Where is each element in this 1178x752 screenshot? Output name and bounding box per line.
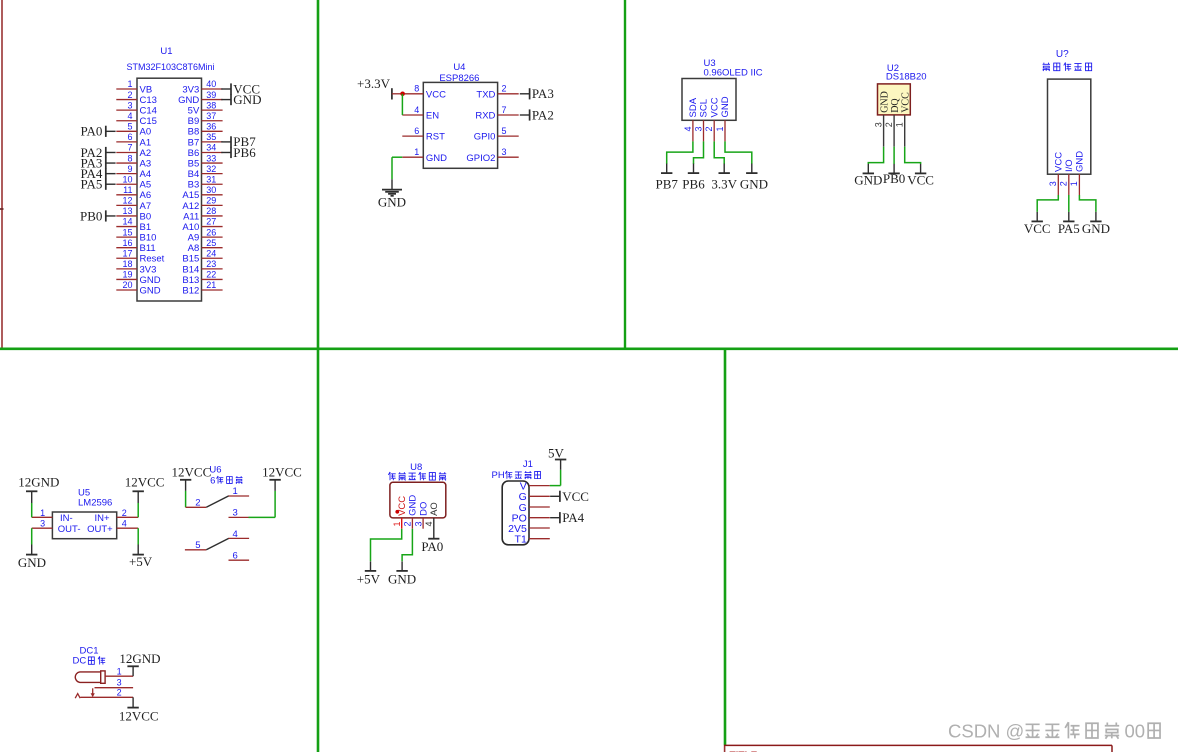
svg-text:1: 1	[1069, 181, 1079, 186]
svg-text:B14: B14	[182, 264, 199, 275]
svg-text:U?: U?	[1056, 49, 1069, 60]
svg-text:00: 00	[1125, 720, 1146, 741]
svg-text:2: 2	[704, 126, 714, 131]
svg-text:GND: GND	[233, 92, 261, 107]
svg-text:VCC: VCC	[562, 489, 589, 504]
svg-text:B13: B13	[182, 275, 199, 286]
svg-text:23: 23	[206, 259, 216, 269]
svg-text:36: 36	[206, 122, 216, 132]
svg-text:A0: A0	[140, 127, 152, 138]
svg-text:VCC: VCC	[901, 92, 912, 113]
svg-text:GND: GND	[740, 176, 768, 191]
svg-text:VCC: VCC	[1054, 152, 1065, 172]
svg-text:2: 2	[122, 508, 127, 518]
svg-text:DQ: DQ	[890, 98, 901, 113]
svg-text:5V: 5V	[188, 106, 200, 117]
svg-text:+5V: +5V	[357, 572, 381, 587]
svg-text:0.96OLED IIC: 0.96OLED IIC	[704, 68, 763, 79]
svg-text:GND: GND	[378, 195, 406, 210]
svg-text:A10: A10	[182, 222, 199, 233]
svg-text:C15: C15	[140, 116, 157, 127]
svg-text:B12: B12	[182, 285, 199, 296]
svg-text:29: 29	[206, 196, 216, 206]
svg-text:B3: B3	[188, 180, 200, 191]
svg-text:B6: B6	[188, 148, 200, 159]
svg-text:2: 2	[1059, 181, 1069, 186]
svg-text:T1: T1	[515, 534, 527, 546]
svg-text:3V3: 3V3	[182, 84, 199, 95]
svg-text:1: 1	[127, 79, 132, 89]
svg-text:3: 3	[413, 521, 423, 526]
svg-text:A2: A2	[140, 148, 152, 159]
svg-text:5V: 5V	[548, 445, 565, 460]
svg-text:4: 4	[414, 105, 419, 115]
svg-text:12GND: 12GND	[119, 651, 160, 666]
svg-text:U4: U4	[453, 62, 465, 73]
svg-text:6: 6	[127, 132, 132, 142]
svg-text:12VCC: 12VCC	[119, 709, 159, 724]
svg-text:B9: B9	[188, 116, 200, 127]
svg-text:IN+: IN+	[94, 513, 110, 524]
svg-text:GND: GND	[178, 95, 199, 106]
svg-text:4: 4	[127, 111, 132, 121]
svg-text:+3.3V: +3.3V	[357, 76, 391, 91]
svg-text:A4: A4	[140, 169, 152, 180]
svg-text:4: 4	[683, 126, 693, 131]
svg-text:GND: GND	[854, 172, 882, 187]
svg-text:PA3: PA3	[532, 86, 554, 101]
svg-text:7: 7	[127, 143, 132, 153]
svg-text:GND: GND	[720, 96, 731, 117]
svg-text:B1: B1	[140, 222, 152, 233]
svg-text:ESP8266: ESP8266	[439, 73, 479, 84]
svg-text:2: 2	[127, 90, 132, 100]
svg-text:A7: A7	[140, 201, 152, 212]
svg-text:21: 21	[206, 280, 216, 290]
svg-text:2: 2	[403, 521, 413, 526]
svg-text:3: 3	[40, 519, 45, 529]
svg-text:2: 2	[884, 122, 894, 127]
svg-text:OUT-: OUT-	[58, 524, 81, 535]
svg-text:19: 19	[122, 270, 132, 280]
svg-text:31: 31	[206, 174, 216, 184]
svg-text:PB6: PB6	[233, 145, 256, 160]
svg-text:38: 38	[206, 100, 216, 110]
svg-text:12GND: 12GND	[18, 475, 59, 490]
svg-text:B4: B4	[188, 169, 200, 180]
svg-text:3: 3	[1048, 181, 1058, 186]
svg-text:24: 24	[206, 248, 216, 258]
svg-text:VCC: VCC	[709, 97, 720, 117]
svg-text:A12: A12	[182, 201, 199, 212]
svg-text:5: 5	[127, 122, 132, 132]
svg-text:3: 3	[233, 508, 238, 519]
svg-text:3.3V: 3.3V	[711, 176, 737, 191]
svg-text:EN: EN	[426, 111, 439, 122]
svg-text:DS18B20: DS18B20	[886, 72, 927, 83]
svg-text:14: 14	[122, 217, 132, 227]
svg-text:U8: U8	[410, 462, 422, 473]
svg-text:22: 22	[206, 270, 216, 280]
svg-text:PH: PH	[492, 470, 505, 481]
svg-text:6: 6	[414, 126, 419, 136]
svg-text:1: 1	[414, 147, 419, 157]
svg-text:A8: A8	[188, 243, 200, 254]
svg-text:12VCC: 12VCC	[262, 464, 302, 479]
svg-text:CSDN @: CSDN @	[948, 720, 1024, 741]
svg-text:4: 4	[233, 529, 238, 540]
svg-text:30: 30	[206, 185, 216, 195]
svg-text:B8: B8	[188, 127, 200, 138]
svg-text:DO: DO	[418, 502, 429, 516]
svg-text:A6: A6	[140, 190, 152, 201]
svg-text:VCC: VCC	[426, 89, 446, 100]
svg-text:AO: AO	[429, 502, 440, 516]
svg-text:C13: C13	[140, 95, 157, 106]
svg-text:GND: GND	[388, 572, 416, 587]
svg-text:A15: A15	[182, 190, 199, 201]
svg-text:SCL: SCL	[699, 99, 710, 117]
svg-text:16: 16	[122, 238, 132, 248]
svg-text:VCC: VCC	[907, 172, 934, 187]
svg-text:A3: A3	[140, 158, 152, 169]
svg-text:PB0: PB0	[80, 208, 102, 223]
svg-text:3: 3	[694, 126, 704, 131]
svg-text:U1: U1	[160, 46, 172, 57]
svg-text:A1: A1	[140, 137, 152, 148]
svg-text:12VCC: 12VCC	[125, 475, 165, 490]
svg-text:11: 11	[123, 185, 132, 195]
svg-text:DC: DC	[73, 656, 87, 667]
svg-text:17: 17	[122, 248, 132, 258]
svg-text:GND: GND	[1075, 151, 1086, 172]
svg-text:8: 8	[127, 153, 132, 163]
svg-text:GND: GND	[18, 555, 46, 570]
svg-text:25: 25	[206, 238, 216, 248]
svg-text:B11: B11	[140, 243, 156, 254]
svg-text:GND: GND	[1082, 221, 1110, 236]
svg-text:37: 37	[206, 111, 216, 121]
svg-text:9: 9	[127, 164, 132, 174]
svg-text:27: 27	[206, 217, 216, 227]
svg-text:18: 18	[122, 259, 132, 269]
svg-text:J1: J1	[523, 459, 533, 470]
svg-text:I/O: I/O	[1064, 159, 1075, 172]
svg-text:PA4: PA4	[562, 510, 584, 525]
svg-text:GND: GND	[140, 275, 161, 286]
svg-text:GPIO2: GPIO2	[466, 153, 495, 164]
svg-text:SDA: SDA	[688, 97, 699, 117]
svg-text:6: 6	[233, 551, 238, 562]
svg-text:3V3: 3V3	[140, 264, 157, 275]
svg-text:A11: A11	[183, 211, 199, 222]
svg-text:5: 5	[195, 540, 200, 551]
svg-text:STM32F103C8T6Mini: STM32F103C8T6Mini	[126, 62, 214, 72]
svg-text:PA0: PA0	[80, 124, 102, 139]
svg-text:GND: GND	[426, 153, 447, 164]
svg-text:PA2: PA2	[532, 107, 554, 122]
svg-text:3: 3	[117, 677, 122, 687]
svg-text:10: 10	[122, 174, 132, 184]
svg-text:33: 33	[206, 153, 216, 163]
svg-text:34: 34	[206, 143, 216, 153]
svg-text:GPI0: GPI0	[474, 132, 496, 143]
svg-text:PB0: PB0	[883, 171, 905, 186]
svg-text:35: 35	[206, 132, 216, 142]
svg-text:12VCC: 12VCC	[172, 464, 212, 479]
svg-text:RST: RST	[426, 132, 445, 143]
svg-text:2: 2	[502, 84, 507, 94]
svg-text:B7: B7	[188, 137, 200, 148]
svg-text:1: 1	[117, 666, 122, 676]
svg-text:4: 4	[122, 519, 127, 529]
svg-text:B5: B5	[188, 158, 200, 169]
svg-text:1: 1	[715, 126, 725, 131]
svg-text:A9: A9	[188, 233, 200, 244]
svg-text:15: 15	[122, 227, 132, 237]
svg-text:1: 1	[233, 486, 238, 497]
svg-text:GND: GND	[408, 495, 419, 516]
svg-text:GND: GND	[879, 91, 890, 113]
svg-text:39: 39	[206, 90, 216, 100]
svg-text:20: 20	[122, 280, 132, 290]
svg-text:LM2596: LM2596	[78, 498, 112, 509]
svg-text:GND: GND	[140, 285, 161, 296]
svg-text:8: 8	[414, 84, 419, 94]
svg-text:PA5: PA5	[1058, 221, 1080, 236]
svg-text:12: 12	[122, 196, 132, 206]
svg-text:PB7: PB7	[655, 176, 678, 191]
svg-text:2: 2	[195, 498, 200, 509]
svg-text:PA0: PA0	[421, 539, 443, 554]
svg-text:C14: C14	[140, 106, 157, 117]
svg-text:3: 3	[127, 100, 132, 110]
svg-text:1: 1	[392, 521, 402, 526]
svg-text:2: 2	[117, 687, 122, 697]
svg-text:PA5: PA5	[80, 177, 102, 192]
svg-text:B0: B0	[140, 211, 152, 222]
svg-text:4: 4	[424, 521, 434, 526]
svg-text:40: 40	[206, 79, 216, 89]
svg-text:+5V: +5V	[129, 554, 153, 569]
svg-text:Reset: Reset	[140, 254, 165, 265]
svg-text:7: 7	[502, 105, 507, 115]
svg-text:5: 5	[502, 126, 507, 136]
svg-text:1: 1	[895, 122, 905, 127]
svg-text:1: 1	[40, 508, 45, 518]
svg-text:B15: B15	[182, 254, 199, 265]
svg-text:OUT+: OUT+	[87, 524, 113, 535]
svg-text:13: 13	[122, 206, 132, 216]
svg-text:26: 26	[206, 227, 216, 237]
svg-text:A5: A5	[140, 180, 152, 191]
svg-text:IN-: IN-	[60, 513, 73, 524]
svg-text:RXD: RXD	[475, 111, 495, 122]
svg-text:TXD: TXD	[476, 89, 495, 100]
svg-text:VB: VB	[140, 84, 153, 95]
svg-text:VCC: VCC	[1024, 221, 1051, 236]
svg-text:PB6: PB6	[682, 176, 705, 191]
svg-text:3: 3	[502, 147, 507, 157]
svg-text:3: 3	[873, 122, 883, 127]
svg-text:B10: B10	[140, 233, 157, 244]
svg-text:32: 32	[206, 164, 216, 174]
svg-text:28: 28	[206, 206, 216, 216]
